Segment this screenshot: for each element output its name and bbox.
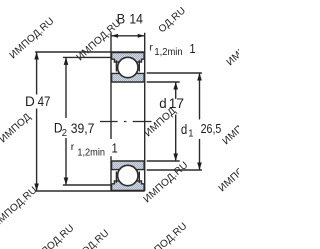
svg-text:14: 14	[129, 11, 143, 27]
d arrow up	[173, 82, 178, 90]
svg-text:ИМПОД.RU: ИМПОД.RU	[28, 223, 77, 249]
svg-text:ОД.RU: ОД.RU	[157, 5, 189, 35]
B arrow right	[138, 34, 145, 38]
B arrow left	[111, 34, 118, 38]
cage bottom right	[138, 172, 140, 183]
B dimension line	[111, 35, 145, 37]
d bottom extension	[147, 160, 180, 162]
cage top right	[138, 60, 140, 71]
outer ring top section	[112, 53, 145, 63]
cage bottom left	[115, 172, 117, 183]
D2 arrow up	[64, 57, 69, 65]
svg-text:1: 1	[189, 42, 196, 57]
svg-text:r: r	[149, 42, 153, 54]
D2 top extension	[63, 56, 111, 58]
svg-text:B: B	[117, 11, 126, 27]
d1 top extension	[147, 72, 202, 74]
svg-text:ИМПОД.RU: ИМПОД.RU	[221, 102, 239, 148]
D arrow down	[34, 184, 39, 192]
d top extension	[147, 81, 180, 83]
svg-text:d: d	[159, 95, 166, 110]
svg-text:d: d	[181, 121, 187, 137]
outer ring bottom section	[112, 181, 145, 191]
d1 arrow up	[197, 73, 202, 81]
bearing right side line	[144, 33, 146, 191]
svg-text:2: 2	[62, 127, 68, 139]
d1 dimension line upper	[199, 74, 201, 120]
svg-text:1,2min: 1,2min	[77, 147, 105, 158]
cage top left	[115, 60, 117, 71]
svg-text:1: 1	[188, 128, 194, 140]
d arrow down	[173, 154, 178, 162]
D2 dimension line upper	[65, 58, 67, 118]
bearing left side line lower	[110, 156, 112, 191]
svg-text:47: 47	[38, 93, 51, 109]
ball bottom	[118, 165, 138, 185]
svg-text:1,2min: 1,2min	[154, 47, 182, 58]
bearing top line + D top extension	[35, 51, 145, 53]
D2 dimension line lower	[65, 138, 67, 184]
D dimension line upper	[36, 53, 38, 95]
svg-text:17: 17	[169, 95, 185, 111]
d1 bottom extension	[147, 169, 202, 171]
ball top	[118, 57, 138, 77]
bearing bottom line + D bottom extension	[35, 190, 145, 192]
svg-text:r: r	[71, 141, 75, 153]
d1 arrow down	[197, 163, 202, 171]
inner ring bottom section	[112, 161, 145, 171]
d1 dimension line lower	[199, 139, 201, 170]
svg-text:1: 1	[112, 141, 119, 156]
svg-text:ИМПОД.RU: ИМПОД.RU	[142, 160, 191, 206]
svg-text:ИМПОД.RU: ИМПОД.RU	[225, 23, 239, 69]
D2 arrow down	[64, 178, 69, 186]
svg-text:39,7: 39,7	[71, 120, 95, 136]
centerline	[100, 121, 152, 123]
inner ring top section	[112, 72, 145, 82]
bearing left side line upper	[110, 33, 112, 139]
D arrow up	[34, 52, 39, 60]
svg-text:ИМПОД.RU: ИМПОД.RU	[8, 16, 57, 62]
svg-text:ИМПОД.RU: ИМПОД.RU	[217, 149, 239, 195]
svg-text:26,5: 26,5	[201, 121, 222, 136]
svg-text:ИМПОД: ИМПОД	[0, 112, 33, 146]
svg-text:ИМПОД.RU: ИМПОД.RU	[141, 221, 190, 249]
svg-text:ИМПОД.RU: ИМПОД.RU	[0, 185, 40, 231]
D2 bottom extension	[63, 184, 111, 186]
d dimension line upper	[175, 83, 177, 99]
D dimension line lower	[36, 109, 38, 191]
d dimension line lower	[175, 115, 177, 161]
svg-text:D: D	[25, 94, 35, 109]
